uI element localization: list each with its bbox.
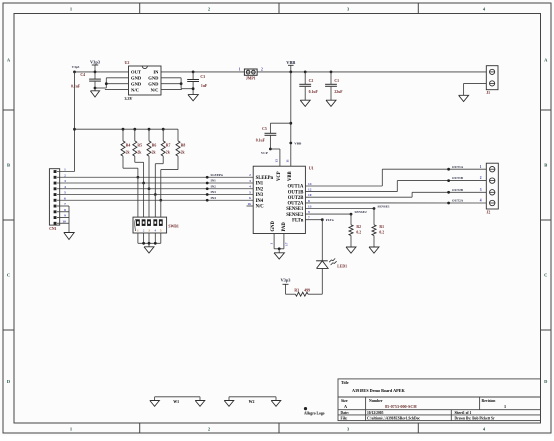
svg-text:5: 5 (249, 190, 251, 194)
svg-text:0.1uF: 0.1uF (309, 90, 319, 94)
svg-text:Sheet1 of 1: Sheet1 of 1 (455, 411, 472, 415)
svg-text:IN3: IN3 (211, 190, 217, 194)
svg-text:1: 1 (64, 168, 66, 172)
svg-text:0.2: 0.2 (356, 230, 361, 234)
svg-text:8: 8 (308, 199, 310, 203)
svg-text:C3: C3 (200, 75, 205, 79)
svg-text:10/12/2005: 10/12/2005 (367, 411, 384, 415)
svg-text:U2: U2 (125, 60, 130, 65)
svg-text:CN1: CN1 (49, 227, 56, 231)
svg-text:Title: Title (341, 381, 349, 385)
svg-text:V3p3: V3p3 (72, 65, 80, 69)
svg-text:C2: C2 (309, 79, 314, 83)
svg-text:V3p3: V3p3 (280, 277, 291, 282)
svg-text:VCP: VCP (277, 171, 282, 181)
svg-text:B: B (544, 163, 547, 168)
svg-text:GND: GND (148, 81, 159, 86)
svg-text:1: 1 (480, 165, 482, 169)
svg-text:OUT1B: OUT1B (288, 190, 304, 195)
svg-text:OUT1B: OUT1B (452, 176, 464, 180)
svg-text:OUT: OUT (131, 70, 141, 75)
svg-text:9: 9 (64, 214, 66, 218)
svg-text:1uF: 1uF (201, 84, 208, 88)
svg-text:W1: W1 (173, 400, 179, 404)
svg-text:3.3V: 3.3V (125, 96, 133, 101)
svg-text:JMP1: JMP1 (246, 76, 256, 80)
svg-text:4: 4 (480, 199, 482, 203)
svg-text:GND: GND (131, 76, 142, 81)
svg-text:0.1uF: 0.1uF (71, 85, 81, 89)
svg-text:Allegro Logo: Allegro Logo (304, 412, 325, 416)
svg-text:85-0753-000-SCH: 85-0753-000-SCH (385, 404, 417, 409)
svg-text:IN1: IN1 (211, 179, 217, 183)
svg-text:VBB: VBB (294, 142, 302, 146)
svg-text:IN4: IN4 (211, 196, 217, 200)
svg-text:10: 10 (62, 219, 66, 223)
svg-text:SENSE2: SENSE2 (355, 210, 367, 214)
svg-text:2: 2 (64, 173, 66, 177)
svg-text:FLTn: FLTn (326, 218, 334, 222)
svg-text:OUT1A: OUT1A (288, 185, 305, 190)
svg-text:C1: C1 (334, 79, 339, 83)
svg-text:R8: R8 (181, 143, 186, 147)
svg-text:0.2: 0.2 (379, 230, 384, 234)
svg-text:B: B (7, 163, 10, 168)
svg-text:12: 12 (308, 188, 312, 192)
svg-text:SENSE1: SENSE1 (286, 207, 304, 212)
svg-text:R1: R1 (379, 225, 384, 229)
svg-text:VBB: VBB (286, 60, 295, 65)
svg-text:GND: GND (131, 81, 142, 86)
svg-text:LED1: LED1 (337, 264, 347, 268)
svg-text:0.1uF: 0.1uF (256, 139, 266, 143)
svg-text:OUT2A: OUT2A (288, 202, 305, 207)
svg-text:GND: GND (148, 76, 159, 81)
svg-text:7: 7 (308, 216, 310, 220)
svg-text:R3: R3 (294, 289, 299, 293)
svg-text:4: 4 (249, 185, 251, 189)
svg-text:Number: Number (369, 399, 383, 403)
svg-text:IN2: IN2 (211, 184, 217, 188)
svg-text:VCP: VCP (261, 151, 268, 155)
svg-text:IN: IN (153, 70, 159, 75)
svg-text:7: 7 (64, 202, 66, 206)
svg-text:11: 11 (285, 159, 289, 163)
svg-text:SENSE1: SENSE1 (378, 205, 390, 209)
svg-text:22uF: 22uF (334, 90, 343, 94)
svg-text:Drawn By: Bob Pickett Sr: Drawn By: Bob Pickett Sr (455, 416, 496, 420)
svg-text:N/C: N/C (131, 87, 139, 92)
svg-text:C: C (544, 273, 547, 278)
svg-text:5: 5 (64, 191, 66, 195)
svg-text:File:: File: (341, 416, 348, 420)
svg-text:1: 1 (239, 67, 241, 71)
svg-text:A: A (344, 404, 347, 409)
svg-text:V3p3: V3p3 (90, 60, 101, 65)
svg-text:2: 2 (480, 176, 482, 180)
svg-text:16: 16 (247, 202, 251, 206)
svg-text:FLTn: FLTn (292, 218, 304, 223)
svg-text:OUT1A: OUT1A (452, 165, 464, 169)
svg-text:R7: R7 (166, 143, 171, 147)
svg-text:13: 13 (308, 204, 312, 208)
svg-text:9: 9 (308, 210, 310, 214)
svg-text:GND: GND (271, 220, 276, 231)
svg-text:R6: R6 (152, 143, 157, 147)
svg-text:Revision: Revision (482, 399, 497, 403)
svg-text:10: 10 (308, 193, 312, 197)
svg-text:2: 2 (249, 173, 251, 177)
svg-text:U1: U1 (309, 166, 314, 171)
svg-text:PAD: PAD (282, 222, 287, 232)
svg-text:3: 3 (249, 179, 251, 183)
svg-text:VBB: VBB (288, 171, 293, 181)
svg-text:IN1: IN1 (256, 182, 264, 187)
svg-text:8: 8 (64, 208, 66, 212)
svg-text:C:\altium\..\A3918ESRev1.SchDo: C:\altium\..\A3918ESRev1.SchDoc (367, 416, 420, 420)
svg-text:N/C: N/C (256, 205, 265, 210)
svg-text:W2: W2 (249, 400, 255, 404)
svg-text:17: 17 (285, 242, 289, 246)
svg-text:14: 14 (308, 182, 312, 186)
svg-text:R2: R2 (356, 225, 361, 229)
svg-text:499: 499 (304, 289, 310, 293)
svg-text:R5: R5 (137, 143, 142, 147)
svg-text:N/C: N/C (151, 87, 159, 92)
svg-text:A3918ES Demo Board APEK: A3918ES Demo Board APEK (352, 388, 405, 393)
svg-text:6: 6 (249, 196, 251, 200)
svg-text:R4: R4 (126, 143, 131, 147)
svg-text:1: 1 (504, 404, 506, 409)
svg-text:SLEEPn: SLEEPn (211, 173, 223, 177)
svg-text:OUT2B: OUT2B (288, 196, 304, 201)
svg-text:OUT2B: OUT2B (452, 188, 464, 192)
svg-text:Size: Size (341, 399, 348, 403)
svg-text:3: 3 (64, 179, 66, 183)
svg-text:C4: C4 (80, 73, 85, 77)
svg-text:IN4: IN4 (256, 199, 264, 204)
svg-text:OUT2A: OUT2A (452, 199, 464, 203)
svg-text:IN2: IN2 (256, 187, 264, 192)
svg-text:15: 15 (274, 159, 278, 163)
svg-text:IN3: IN3 (256, 193, 264, 198)
svg-text:SWB1: SWB1 (168, 225, 178, 229)
svg-text:J1: J1 (486, 91, 490, 95)
svg-text:2: 2 (261, 67, 263, 71)
svg-text:1: 1 (269, 243, 273, 245)
svg-text:C: C (7, 273, 10, 278)
svg-text:4: 4 (64, 185, 66, 189)
svg-text:C5: C5 (262, 127, 267, 131)
svg-text:J2: J2 (487, 211, 491, 215)
svg-text:SLEEPn: SLEEPn (256, 176, 274, 181)
svg-text:3: 3 (480, 188, 482, 192)
svg-text:SENSE2: SENSE2 (286, 213, 304, 218)
svg-text:Date:: Date: (341, 411, 349, 415)
svg-text:6: 6 (64, 196, 66, 200)
